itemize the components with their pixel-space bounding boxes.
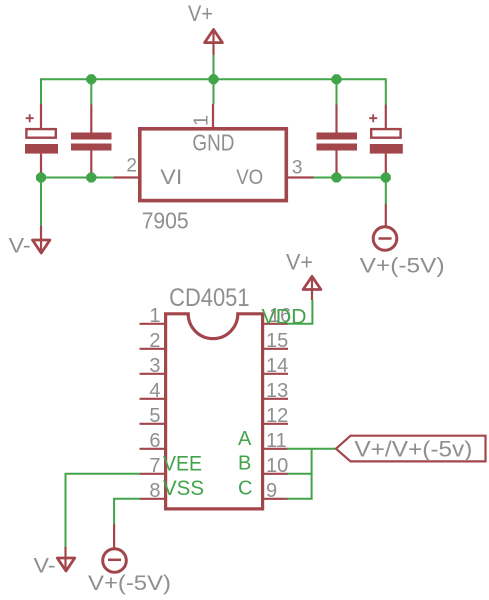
- svg-text:8: 8: [149, 480, 160, 502]
- pin 4: [140, 398, 165, 400]
- net flag V+/V+(-5v): [336, 436, 486, 462]
- svg-text:VSS: VSS: [163, 477, 204, 500]
- wire bus to C3: [336, 79, 338, 105]
- svg-text:V+: V+: [188, 1, 213, 26]
- wire left drop: [40, 78, 42, 104]
- svg-text:9: 9: [266, 480, 277, 502]
- wire bus to C2: [90, 79, 92, 105]
- pin 11: [264, 448, 289, 450]
- IC2 body with notch: [166, 314, 263, 509]
- capacitor C2 (ceramic, x=91): [71, 105, 112, 178]
- pin 10: [264, 473, 289, 475]
- wire pin8 to -5V supply: [114, 499, 140, 524]
- IC1 pin 1 (GND) stub: [212, 104, 214, 127]
- svg-text:VDD: VDD: [262, 305, 307, 329]
- svg-text:15: 15: [266, 330, 288, 352]
- pin 5: [140, 423, 165, 425]
- junction dot rail-C3: [332, 173, 342, 183]
- supply symbol V- (bottom): [57, 547, 74, 571]
- right pin numbers: [266, 305, 291, 502]
- svg-text:V-: V-: [34, 554, 56, 578]
- svg-text:C: C: [238, 477, 252, 499]
- IC1 pin 3 stub: [288, 176, 314, 178]
- IC2 right pin stubs 16-9: [264, 324, 289, 499]
- left pin numbers: [149, 305, 160, 502]
- svg-text:14: 14: [266, 355, 288, 377]
- wire right drop: [385, 78, 387, 104]
- svg-text:V-: V-: [9, 234, 31, 258]
- wire V+ to bus: [213, 55, 215, 80]
- pin 2: [140, 348, 165, 350]
- svg-text:6: 6: [149, 430, 160, 452]
- pin 16: [264, 323, 289, 325]
- supply symbol V+ (bottom): [303, 276, 321, 300]
- pin 1: [140, 323, 165, 325]
- svg-text:CD4051: CD4051: [169, 284, 250, 312]
- supply symbol -5V (top circuit, circle-minus): [373, 204, 397, 250]
- junction dot rail-C2: [86, 173, 96, 183]
- pin 12: [264, 423, 289, 425]
- junction dot bus-C2: [86, 74, 96, 84]
- supply symbol -5V (bottom, circle-minus): [103, 524, 127, 572]
- svg-text:A: A: [238, 428, 252, 450]
- svg-text:3: 3: [292, 158, 303, 179]
- wire V+ to VDD pin: [287, 300, 312, 324]
- pin 14: [264, 373, 289, 375]
- svg-text:B: B: [238, 452, 251, 474]
- wire pin7 to V-: [66, 474, 140, 547]
- svg-text:V+/V+(-5v): V+/V+(-5v): [354, 437, 472, 462]
- svg-text:10: 10: [266, 455, 288, 477]
- capacitor C3 (ceramic, x=336.5): [317, 105, 358, 178]
- svg-text:12: 12: [266, 405, 288, 427]
- wire pin10 branch: [287, 473, 313, 475]
- svg-text:VI: VI: [160, 166, 182, 189]
- junction dot bus-C3: [332, 74, 342, 84]
- junction dot bus-V+: [209, 74, 219, 84]
- wire vertical pin11-pin9: [311, 449, 313, 499]
- pin 13: [264, 398, 289, 400]
- svg-text:5: 5: [149, 405, 160, 427]
- pin 7: [140, 473, 165, 475]
- svg-text:13: 13: [266, 380, 288, 402]
- wire top bus: [40, 78, 386, 80]
- wire bus to pin1: [213, 79, 215, 104]
- junction dot rail-C1: [36, 173, 46, 183]
- pin 9: [264, 498, 289, 500]
- wire V- drop: [40, 178, 42, 227]
- svg-text:4: 4: [149, 380, 160, 402]
- wire pin9 branch: [287, 498, 313, 500]
- supply symbol V+ P1: [205, 30, 223, 56]
- pin 8: [140, 498, 165, 500]
- svg-text:V+(-5V): V+(-5V): [360, 254, 445, 277]
- svg-text:2: 2: [149, 330, 160, 352]
- svg-text:1: 1: [191, 115, 213, 126]
- capacitor C4 (polarized, right): [369, 105, 403, 178]
- svg-text:VO: VO: [236, 166, 263, 189]
- wire drop to -5V supply: [385, 178, 387, 205]
- pin 15: [264, 348, 289, 350]
- svg-text:1: 1: [149, 305, 160, 327]
- svg-text:2: 2: [126, 156, 137, 177]
- svg-text:11: 11: [266, 430, 287, 452]
- svg-text:7905: 7905: [142, 208, 189, 234]
- svg-text:3: 3: [149, 355, 160, 377]
- svg-text:V+(-5V): V+(-5V): [88, 572, 171, 595]
- IC1 7905 body: [140, 129, 286, 201]
- svg-text:V+: V+: [286, 250, 313, 275]
- wire bottom rail right: [313, 177, 386, 179]
- junction dot rail-C4: [381, 173, 391, 183]
- capacitor C1 (polarized, left): [25, 104, 58, 178]
- wire bottom rail left: [41, 177, 114, 179]
- wire pin11 to flag: [287, 448, 336, 450]
- svg-text:GND: GND: [192, 130, 234, 156]
- pin 6: [140, 448, 165, 450]
- IC1 pin 2 stub: [114, 176, 139, 178]
- supply symbol V- (top circuit): [33, 226, 50, 253]
- svg-text:VEE: VEE: [163, 452, 202, 475]
- pin 3: [140, 373, 165, 375]
- svg-text:7: 7: [149, 455, 160, 477]
- IC2 left pin stubs 1-8: [140, 324, 165, 499]
